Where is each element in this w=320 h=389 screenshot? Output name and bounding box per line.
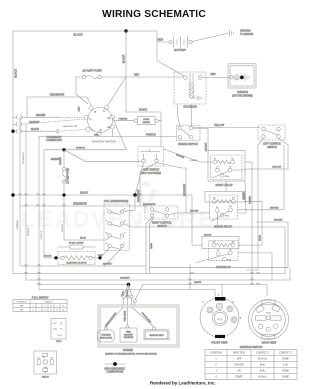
svg-text:87: 87 bbox=[216, 207, 219, 209]
svg-text:RELAY: RELAY bbox=[42, 376, 50, 379]
wire bottom bus 273 bbox=[13, 273, 285, 275]
svg-text:85: 85 bbox=[213, 198, 216, 200]
wire black bus y195 bbox=[13, 192, 202, 246]
title bbox=[102, 9, 206, 20]
svg-text:RED: RED bbox=[78, 106, 80, 111]
svg-text:BROWN: BROWN bbox=[36, 114, 45, 117]
junction top dot bbox=[124, 29, 127, 32]
svg-text:WIRING SCHEMATIC: WIRING SCHEMATIC bbox=[102, 9, 206, 20]
svg-text:CONTACT 2: CONTACT 2 bbox=[279, 352, 293, 355]
svg-text:OFF: OFF bbox=[237, 359, 242, 361]
svg-text:2: 2 bbox=[214, 365, 217, 367]
svg-text:S: S bbox=[103, 109, 105, 113]
svg-text:SOLENOID: SOLENOID bbox=[124, 337, 134, 339]
svg-text:3: 3 bbox=[232, 300, 234, 304]
wire red/white bus y206 bbox=[20, 203, 145, 207]
svg-text:START RELAY: START RELAY bbox=[215, 183, 233, 187]
svg-text:RED: RED bbox=[94, 134, 99, 136]
svg-text:GREEN: GREEN bbox=[60, 157, 62, 165]
junction dots y195 bbox=[11, 193, 137, 197]
svg-text:NON–REMOVABLE: NON–REMOVABLE bbox=[105, 368, 126, 371]
wire engine feed drops bbox=[121, 285, 133, 306]
svg-text:M: M bbox=[100, 128, 102, 132]
svg-text:85: 85 bbox=[213, 242, 216, 244]
svg-text:P.T.O. (DISENGAGED): P.T.O. (DISENGAGED) bbox=[104, 200, 129, 203]
svg-text:SWITCH: SWITCH bbox=[157, 225, 167, 228]
svg-text:POSITION: POSITION bbox=[17, 302, 27, 304]
left control switch S5 bbox=[258, 125, 285, 140]
wire bottom orange bus bbox=[26, 268, 290, 280]
svg-text:BLUE: BLUE bbox=[80, 238, 86, 240]
svg-text:D-X: D-X bbox=[53, 329, 57, 331]
svg-text:E: E bbox=[106, 243, 108, 245]
svg-text:POSITION: POSITION bbox=[211, 353, 222, 355]
ignition switch hub bbox=[84, 105, 114, 135]
wire brown lower right bbox=[150, 267, 288, 269]
svg-text:L: L bbox=[92, 128, 94, 132]
wire dashed accessory to ignition bbox=[22, 117, 87, 131]
svg-text:86: 86 bbox=[231, 158, 234, 160]
svg-text:RED/WHITE: RED/WHITE bbox=[73, 203, 87, 206]
wire pto to run relay bbox=[124, 224, 286, 274]
wire left bundle verticals bbox=[19, 117, 21, 266]
svg-text:WHITE: WHITE bbox=[194, 282, 202, 284]
wire solenoid coil to brake switch bbox=[178, 105, 192, 126]
svg-text:CONNECTOR: CONNECTOR bbox=[46, 139, 62, 142]
svg-text:1: 1 bbox=[217, 317, 219, 321]
svg-text:NONE: NONE bbox=[282, 377, 289, 379]
svg-text:BROWN: BROWN bbox=[274, 220, 283, 222]
wire seat switch red/white drop bbox=[138, 163, 157, 206]
svg-text:IGNITION UNIT: IGNITION UNIT bbox=[149, 335, 164, 337]
svg-text:4: 4 bbox=[215, 376, 217, 379]
battery B1 bbox=[169, 37, 192, 53]
seat switch S6 bbox=[138, 147, 164, 167]
wire brake relay 87 drop bbox=[216, 212, 218, 227]
watermark text bbox=[21, 206, 216, 232]
svg-text:A1: A1 bbox=[107, 116, 111, 120]
junction dots clutch bbox=[54, 256, 101, 259]
svg-text:NONE: NONE bbox=[282, 359, 289, 361]
svg-text:87A: 87A bbox=[225, 175, 229, 178]
svg-text:BRAKE SWITCH: BRAKE SWITCH bbox=[178, 142, 198, 146]
svg-text:METER: METER bbox=[143, 122, 151, 124]
diode D1 bbox=[58, 242, 95, 249]
svg-text:2: 2 bbox=[218, 292, 220, 296]
wire fuse bus y77 bbox=[76, 73, 184, 111]
svg-text:REGULATOR: REGULATOR bbox=[100, 337, 113, 340]
fuel shutoff solenoid bbox=[120, 328, 137, 342]
svg-text:4: 4 bbox=[240, 316, 242, 320]
wire front view feed 2 bbox=[221, 285, 223, 298]
svg-text:87: 87 bbox=[216, 167, 219, 169]
svg-text:87A: 87A bbox=[225, 215, 229, 218]
svg-text:NONE: NONE bbox=[282, 371, 289, 373]
svg-text:FUNCTION: FUNCTION bbox=[233, 353, 245, 355]
svg-text:BROWN: BROWN bbox=[270, 207, 279, 209]
brake switch S2 bbox=[177, 126, 201, 141]
svg-text:7.5 AMP FUSE: 7.5 AMP FUSE bbox=[67, 168, 70, 184]
svg-text:SHUTOFF: SHUTOFF bbox=[124, 334, 134, 336]
svg-text:B+A₁: B+A₁ bbox=[260, 370, 265, 373]
svg-text:BLACK: BLACK bbox=[14, 69, 18, 78]
svg-text:Rendered by LeadVenture, Inc.: Rendered by LeadVenture, Inc. bbox=[150, 380, 216, 385]
wire ignition S to junction bbox=[108, 77, 127, 106]
svg-text:BLACK: BLACK bbox=[73, 33, 82, 37]
ignition switch label bbox=[92, 139, 117, 143]
relay connector bbox=[34, 351, 57, 379]
wire left control drops bbox=[246, 138, 264, 270]
wire clutch leads bbox=[44, 257, 100, 259]
svg-text:30: 30 bbox=[229, 206, 232, 208]
svg-text:G: G bbox=[90, 117, 92, 121]
svg-text:P.T.O.: P.T.O. bbox=[56, 341, 62, 343]
wire right ctl to brake relay bbox=[169, 211, 210, 215]
wire dot to pto switch bbox=[124, 195, 136, 212]
svg-text:TO ENGINE: TO ENGINE bbox=[240, 33, 254, 36]
svg-text:BATTERY: BATTERY bbox=[174, 48, 186, 52]
wire pto drops bbox=[100, 248, 122, 267]
svg-text:CONNECTIONS: CONNECTIONS bbox=[106, 372, 123, 374]
electric clutch L1 bbox=[58, 252, 95, 265]
non-removable connections legend bbox=[105, 362, 126, 374]
wire bottom brown bus bbox=[20, 264, 146, 266]
svg-text:F: F bbox=[124, 243, 126, 245]
svg-text:ENGINE: ENGINE bbox=[123, 348, 133, 352]
svg-text:26148: 26148 bbox=[266, 313, 271, 315]
svg-text:GREEN: GREEN bbox=[62, 224, 64, 232]
wire hub diagonal to green bus bbox=[44, 119, 126, 150]
svg-text:M+G+A₁: M+G+A₁ bbox=[258, 358, 267, 361]
svg-text:0: 0 bbox=[220, 317, 222, 321]
start relay K2 bbox=[208, 151, 245, 182]
wire battery to ground bbox=[192, 33, 229, 42]
ground to engine bbox=[230, 30, 254, 37]
svg-text:B: B bbox=[61, 323, 63, 325]
right control switch S4 bbox=[145, 206, 178, 219]
svg-text:BLACK: BLACK bbox=[122, 54, 126, 63]
svg-text:RED/WHITE: RED/WHITE bbox=[138, 189, 140, 202]
svg-text:RED: RED bbox=[134, 73, 139, 76]
svg-text:P.T.O. SWITCH: P.T.O. SWITCH bbox=[32, 296, 49, 299]
wire blue pto feed bbox=[44, 150, 110, 258]
wire purple to brake switch bbox=[146, 133, 156, 136]
svg-text:RED: RED bbox=[158, 38, 164, 42]
junction dot green bbox=[62, 148, 65, 151]
svg-text:FRONT VIEW: FRONT VIEW bbox=[211, 340, 228, 344]
svg-text:GREEN: GREEN bbox=[250, 196, 252, 204]
wire crossing jumps bbox=[19, 194, 260, 285]
svg-text:ORANGE: ORANGE bbox=[16, 220, 19, 230]
svg-text:BLACK: BLACK bbox=[243, 192, 246, 200]
wire yellow brake to left control bbox=[193, 124, 260, 128]
wire solenoid to starter bbox=[202, 73, 230, 78]
wire start relay to brake relay bbox=[225, 182, 227, 192]
svg-text:BROWN: BROWN bbox=[190, 211, 199, 213]
svg-text:VOLTAGE: VOLTAGE bbox=[101, 334, 111, 337]
20 amp fuse F1 bbox=[81, 69, 102, 79]
svg-text:BROWN: BROWN bbox=[28, 227, 30, 236]
svg-text:BACK VIEW: BACK VIEW bbox=[262, 340, 277, 344]
wire battery red drop bbox=[157, 42, 184, 76]
svg-text:D-H: D-H bbox=[58, 335, 62, 337]
svg-text:D-7: D-7 bbox=[53, 323, 57, 325]
wire black vertical from top dot bbox=[122, 31, 162, 147]
wire bottom bus 284 bbox=[38, 282, 267, 305]
svg-text:BLACK: BLACK bbox=[139, 109, 147, 112]
wire red/white to ignition bbox=[27, 93, 91, 106]
svg-text:PURPLE: PURPLE bbox=[41, 230, 43, 239]
wire brown brake to start relay bbox=[193, 129, 208, 152]
pto switch table bbox=[13, 296, 67, 311]
svg-text:B+S+A₁: B+S+A₁ bbox=[258, 376, 266, 379]
svg-text:B: B bbox=[95, 110, 97, 114]
svg-text:IGNITION SWITCH: IGNITION SWITCH bbox=[92, 139, 117, 143]
svg-text:RUN RELAY: RUN RELAY bbox=[216, 265, 231, 269]
wire brown diagonal to start relay bbox=[164, 149, 201, 162]
svg-text:BRAKE RELAY: BRAKE RELAY bbox=[214, 224, 232, 228]
svg-text:1: 1 bbox=[215, 359, 217, 361]
wire brake relay returns bbox=[239, 201, 262, 245]
svg-text:BLACK: BLACK bbox=[190, 159, 198, 162]
svg-text:E: E bbox=[61, 329, 63, 331]
svg-text:BLACK: BLACK bbox=[204, 234, 212, 237]
svg-text:26148: 26148 bbox=[150, 242, 153, 249]
svg-text:GREEN: GREEN bbox=[51, 158, 60, 161]
svg-text:L+A₂: L+A₂ bbox=[283, 364, 288, 367]
starter M1 bbox=[228, 64, 256, 98]
svg-text:BLACK: BLACK bbox=[80, 192, 88, 195]
7.5 amp fuse F2 bbox=[60, 150, 70, 240]
svg-text:HOUR: HOUR bbox=[143, 119, 149, 121]
wire black top bus bbox=[13, 31, 169, 274]
svg-text:SOLENOID: SOLENOID bbox=[183, 105, 197, 109]
svg-text:3: 3 bbox=[215, 371, 217, 373]
svg-text:+: + bbox=[38, 306, 39, 308]
svg-text:RED/YELLOW: RED/YELLOW bbox=[63, 126, 78, 128]
svg-text:SWITCH: SWITCH bbox=[267, 146, 277, 149]
svg-text:+: + bbox=[56, 306, 57, 308]
wire A2 under-hub black bbox=[39, 129, 177, 136]
svg-text:86: 86 bbox=[232, 242, 235, 244]
voltage regulator bbox=[98, 330, 115, 342]
svg-text:A2: A2 bbox=[107, 125, 111, 129]
svg-text:BROWN: BROWN bbox=[103, 264, 112, 266]
accessory connector J1 bbox=[13, 114, 62, 142]
svg-text:CONTACT 1: CONTACT 1 bbox=[256, 352, 270, 355]
junction dot accessory bbox=[11, 130, 14, 133]
svg-text:87: 87 bbox=[43, 357, 46, 359]
wire green to seat switch bbox=[51, 150, 142, 162]
junction dot engine feed bbox=[127, 283, 131, 287]
svg-text:YELLOW: YELLOW bbox=[272, 167, 282, 169]
svg-text:RED/WHITE: RED/WHITE bbox=[23, 151, 25, 164]
svg-text:BROWN: BROWN bbox=[206, 142, 208, 151]
svg-text:30: 30 bbox=[229, 167, 232, 169]
ignition unit bbox=[144, 330, 169, 340]
svg-text:20 AMP FUSE: 20 AMP FUSE bbox=[81, 69, 102, 73]
wire red/white vertical to brown bus bbox=[158, 163, 186, 213]
ignition switch back view bbox=[249, 300, 289, 345]
wire green right margin bbox=[250, 169, 252, 285]
svg-text:+: + bbox=[38, 310, 39, 312]
run relay K4 bbox=[202, 237, 239, 249]
svg-text:87: 87 bbox=[217, 250, 220, 252]
wire brown right margin bbox=[256, 220, 288, 268]
svg-text:RED/WHITE: RED/WHITE bbox=[50, 93, 65, 97]
ignition switch table bbox=[205, 345, 297, 380]
svg-text:#4 GA. DIODE: #4 GA. DIODE bbox=[69, 242, 84, 245]
wire right ctl drop pair bbox=[146, 217, 154, 273]
svg-text:PURPLE: PURPLE bbox=[127, 289, 129, 297]
svg-text:B+A₁: B+A₁ bbox=[260, 364, 265, 367]
svg-text:87A: 87A bbox=[227, 259, 231, 262]
svg-text:G: G bbox=[124, 233, 126, 235]
svg-text:YELLOW: YELLOW bbox=[214, 124, 225, 127]
wire black start relay drop bbox=[238, 181, 246, 213]
svg-text:PURPLE: PURPLE bbox=[146, 133, 156, 136]
svg-text:ELECTRIC CLUTCH: ELECTRIC CLUTCH bbox=[66, 262, 87, 264]
svg-text:FUEL (WHT): FUEL (WHT) bbox=[125, 310, 127, 321]
svg-text:WHT/BLK (CHARGE): WHT/BLK (CHARGE) bbox=[104, 312, 117, 328]
engine box bbox=[98, 305, 179, 356]
svg-text:FUEL: FUEL bbox=[126, 332, 131, 334]
pto connector bbox=[51, 319, 66, 343]
wire engine internals bbox=[104, 307, 155, 330]
rendered by credit bbox=[150, 380, 216, 385]
svg-text:(ON THE ENGINE): (ON THE ENGINE) bbox=[232, 94, 253, 97]
svg-text:PURPLE: PURPLE bbox=[119, 118, 128, 120]
wire back view feed bbox=[266, 285, 268, 297]
svg-text:IGNITION SWITCH: IGNITION SWITCH bbox=[240, 345, 263, 349]
pto switch S3 bbox=[104, 204, 130, 251]
svg-text:85: 85 bbox=[214, 158, 217, 160]
svg-text:ON: ON bbox=[237, 371, 241, 373]
ignition switch front view bbox=[200, 292, 242, 344]
svg-text:ORANGE: ORANGE bbox=[120, 276, 130, 279]
svg-text:1: 1 bbox=[203, 300, 205, 304]
solenoid K1 bbox=[174, 72, 206, 104]
wire bottom bus 289 bbox=[39, 290, 215, 298]
svg-text:86: 86 bbox=[232, 198, 235, 200]
svg-text:RED/WHITE: RED/WHITE bbox=[184, 183, 186, 196]
svg-text:BLUE: BLUE bbox=[260, 235, 262, 241]
svg-text:BLACK: BLACK bbox=[44, 254, 52, 257]
watermark logo bbox=[134, 182, 158, 216]
brake relay K3 bbox=[205, 192, 245, 203]
wire run relay returns bbox=[238, 253, 272, 280]
svg-text:30: 30 bbox=[44, 372, 47, 374]
wire yellow start relay return bbox=[232, 167, 288, 170]
svg-text:30: 30 bbox=[229, 249, 232, 251]
svg-text:CIRCUIT: CIRCUIT bbox=[44, 302, 53, 304]
svg-text:BLACK: BLACK bbox=[31, 128, 39, 131]
svg-text:PURPLE: PURPLE bbox=[76, 148, 85, 150]
svg-text:START: START bbox=[235, 376, 243, 379]
svg-text:(NOT OCCUPIED): (NOT OCCUPIED) bbox=[141, 172, 161, 175]
svg-text:(REFER TO ENGINE MANUAL FO: (REFER TO ENGINE MANUAL FOR MORE DETAIL) bbox=[105, 353, 157, 356]
svg-text:BROWN: BROWN bbox=[176, 154, 185, 159]
svg-text:RED: RED bbox=[210, 73, 215, 76]
svg-text:WHT/YEL (KILL): WHT/YEL (KILL) bbox=[141, 312, 152, 324]
hour meter M2 bbox=[114, 117, 161, 125]
wire seat switch to black bus bbox=[135, 163, 144, 195]
svg-text:ON+ASS: ON+ASS bbox=[234, 364, 244, 367]
